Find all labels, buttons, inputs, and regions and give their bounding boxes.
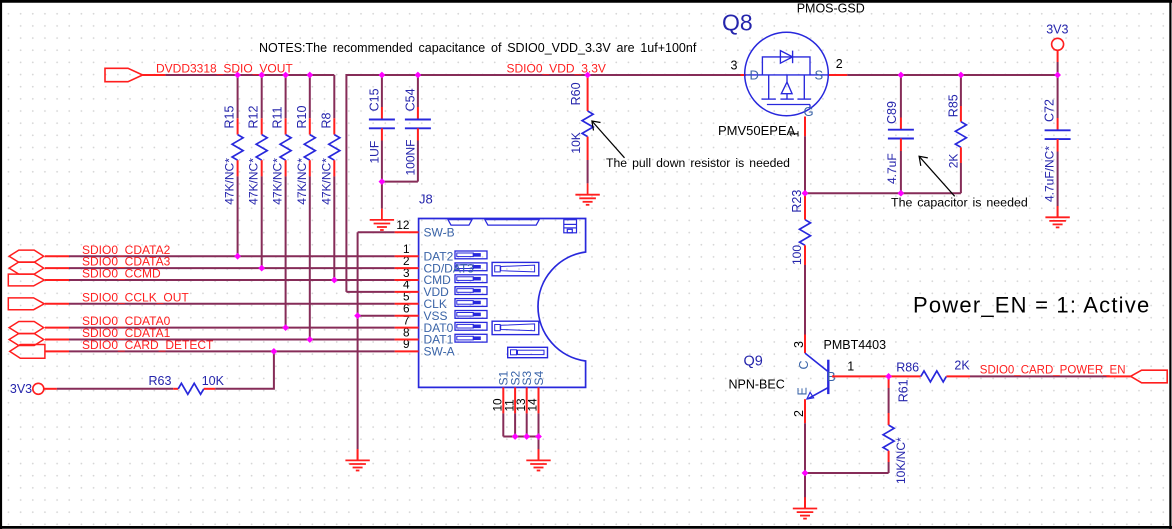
wire SDIO0_CDATA0	[69, 327, 395, 329]
wire S1 down	[502, 413, 504, 436]
wire Q9 collector pin	[804, 335, 806, 354]
junction at 309.8,75	[306, 72, 313, 79]
ground under S4	[526, 449, 550, 470]
connector slot bar 2	[485, 220, 539, 225]
wire S4 down	[538, 413, 540, 436]
power terminal 3V3 left	[33, 383, 57, 394]
resistor R63 10K	[57, 374, 225, 394]
svg-text:C: C	[797, 360, 811, 369]
junction at 1057.6,75	[1054, 72, 1061, 79]
svg-text:3V3: 3V3	[10, 382, 32, 396]
svg-text:The capacitor is needed: The capacitor is needed	[891, 195, 1028, 209]
port SDIO0_CARD_DETECT	[10, 345, 69, 359]
connector write-protect switch icon	[564, 220, 577, 233]
wire rail SDIO0_VDD_3.3V left part	[346, 75, 740, 292]
resistor R23 100	[790, 190, 811, 335]
connector slot bar 1	[448, 220, 472, 225]
resistor R10 47K/NC* pull-up	[295, 75, 316, 340]
wire rail SDIO0_VDD_3.3V right part	[847, 74, 1057, 76]
junction at 285.6,327.6	[282, 324, 289, 331]
junction at 900.9,75	[898, 72, 905, 79]
svg-text:1: 1	[847, 359, 854, 373]
svg-text:R61: R61	[897, 379, 911, 402]
junction at 261.7,75	[258, 72, 265, 79]
connector card switch 1	[492, 262, 539, 275]
svg-text:R86: R86	[896, 361, 919, 375]
svg-text:S: S	[815, 67, 824, 82]
resistor R85 2K	[946, 75, 966, 193]
pin stub 4	[395, 291, 419, 293]
junction at 237.6,256.2	[234, 253, 241, 260]
svg-text:NOTES:The recommended capacita: NOTES:The recommended capacitance of SDI…	[259, 41, 697, 55]
port SDIO0_CDATA1	[9, 333, 69, 345]
pin stub 3	[395, 279, 419, 281]
svg-text:R15: R15	[223, 106, 237, 129]
svg-text:SDIO0_VDD_3.3V: SDIO0_VDD_3.3V	[507, 61, 606, 75]
pin stub 7	[395, 327, 419, 329]
svg-text:4.7uF/NC*: 4.7uF/NC*	[1043, 146, 1057, 202]
svg-text:C72: C72	[1043, 99, 1057, 122]
wire SDIO0_CDATA1	[69, 339, 395, 341]
wire SW-B to ground column	[358, 231, 395, 233]
svg-text:47K/NC*: 47K/NC*	[223, 158, 237, 205]
svg-text:The pull down resistor is need: The pull down resistor is needed	[606, 156, 790, 170]
junction at 237.6,75	[234, 72, 241, 79]
svg-text:10K: 10K	[202, 374, 225, 388]
connector card switch 2	[492, 321, 539, 334]
junction at 261.7,268.1	[258, 265, 265, 272]
connector contact pad 3	[455, 275, 487, 283]
wire SDIO0_CCLK_OUT	[69, 303, 395, 305]
ground under C15	[370, 209, 394, 230]
port SDIO0_CDATA3	[9, 262, 69, 274]
svg-text:C89: C89	[885, 101, 899, 124]
resistor R12 47K/NC* pull-up	[247, 75, 268, 268]
svg-text:J8: J8	[419, 192, 433, 207]
capacitor C54 100NF	[403, 75, 431, 182]
svg-text:100: 100	[790, 245, 804, 265]
connector J8 body outline	[419, 219, 586, 388]
wire R63 to card detect	[215, 351, 274, 388]
pin stub 10	[502, 387, 504, 413]
svg-text:PMV50EPEA: PMV50EPEA	[718, 123, 796, 138]
junction at 381.9,75	[379, 72, 386, 79]
connector contact pad 2	[455, 263, 487, 271]
wire SDIO0_CCMD	[69, 279, 395, 281]
wire Q9 base	[832, 375, 889, 377]
resistor R86 2K	[889, 358, 971, 382]
svg-text:10K/NC*: 10K/NC*	[894, 437, 908, 484]
junction at 888.6,376.4	[885, 373, 892, 380]
resistor R61 10K/NC*	[883, 376, 910, 484]
junction at 538.5,436.5	[535, 433, 542, 440]
pin stub 13	[526, 387, 528, 413]
svg-text:DVDD3318_SDIO_VOUT: DVDD3318_SDIO_VOUT	[156, 61, 293, 75]
wire ground column vertical	[357, 232, 359, 460]
svg-text:R10: R10	[295, 106, 309, 129]
wire C15-C54 bottom rail	[382, 181, 418, 183]
svg-text:R12: R12	[247, 106, 261, 129]
svg-text:R63: R63	[149, 374, 172, 388]
wire C15 to ground	[381, 182, 383, 209]
wire VSS pin	[358, 315, 395, 317]
wire rail DVDD3318_SDIO_VOUT	[165, 74, 334, 76]
wire Q8 source red pin	[828, 74, 848, 76]
connector contact pad 6	[455, 311, 487, 319]
annotation arrow to R60	[592, 121, 625, 158]
svg-text:10K: 10K	[569, 132, 583, 153]
pin stub 11	[514, 387, 516, 413]
junction at 526.7,436.5	[523, 433, 530, 440]
annotation arrow to C89	[919, 156, 955, 196]
junction at 805,193.2	[802, 190, 809, 197]
wire SDIO0_CDATA2	[69, 255, 395, 257]
svg-text:S4: S4	[532, 370, 546, 385]
pin stub 12	[395, 231, 419, 233]
svg-text:1UF: 1UF	[367, 141, 381, 164]
resistor R60 10K pull-down	[569, 75, 593, 183]
junction at 900.9,193.2	[898, 190, 905, 197]
wire SDIO0_CDATA3	[69, 267, 395, 269]
port SDIO0_CCMD	[8, 274, 69, 286]
wire 3V3 to rail	[1057, 62, 1059, 75]
wire S2 down	[514, 413, 516, 436]
ground under C72	[1045, 206, 1069, 227]
svg-text:R8: R8	[319, 112, 333, 128]
port SDIO0_CCLK_OUT	[8, 298, 69, 310]
transistor Q9 symbol	[805, 353, 828, 399]
svg-text:PMOS-GSD: PMOS-GSD	[797, 2, 865, 16]
port SDIO0_CDATA2	[9, 250, 69, 262]
junction at 357.6,315.7	[354, 312, 361, 319]
pin stub 2	[395, 267, 419, 269]
svg-text:C54: C54	[403, 88, 417, 111]
svg-text:E: E	[796, 387, 810, 395]
pin stub 6	[395, 315, 419, 317]
svg-text:3: 3	[731, 59, 738, 73]
port SDIO0_CARD_POWER_EN	[1107, 370, 1168, 383]
svg-text:R11: R11	[271, 106, 285, 128]
svg-text:SDIO0_CCLK_OUT: SDIO0_CCLK_OUT	[82, 290, 189, 304]
connector bottom switch	[508, 347, 548, 357]
svg-text:R60: R60	[569, 82, 583, 105]
wire VDD pin from rail riser	[346, 291, 394, 293]
power terminal 3V3 right	[1052, 38, 1064, 62]
svg-text:100NF: 100NF	[403, 139, 417, 175]
wire to SDIO0_CARD_POWER_EN	[970, 375, 1107, 377]
junction at 417.9,75	[415, 72, 422, 79]
svg-text:SDIO0_CARD_POWER_EN: SDIO0_CARD_POWER_EN	[980, 365, 1126, 377]
junction at 381.9,181.6	[379, 178, 386, 185]
port SDIO0_CDATA0	[9, 322, 69, 334]
ground under SW-B/VSS column	[345, 449, 369, 470]
svg-text:3: 3	[792, 341, 806, 348]
svg-text:PMBT4403: PMBT4403	[824, 338, 887, 352]
junction at 515.1,436.5	[512, 433, 519, 440]
svg-text:2K: 2K	[946, 154, 960, 169]
resistor R11 47K/NC* pull-up	[271, 75, 292, 328]
svg-text:D: D	[750, 67, 759, 82]
wire Q9 emitter down	[804, 399, 806, 508]
ground under Q9	[793, 497, 817, 518]
svg-text:3V3: 3V3	[1046, 22, 1068, 36]
svg-text:47K/NC*: 47K/NC*	[295, 158, 309, 205]
svg-text:C15: C15	[367, 88, 381, 111]
svg-text:4.7uF: 4.7uF	[885, 153, 899, 184]
svg-text:12: 12	[396, 218, 409, 232]
svg-text:2K: 2K	[954, 358, 970, 372]
connector contact pad 8	[455, 334, 487, 342]
junction at 285.6,75	[282, 72, 289, 79]
svg-text:R85: R85	[946, 94, 960, 117]
connector contact pad 7	[455, 322, 487, 330]
svg-text:SDIO0_CARD_DETECT: SDIO0_CARD_DETECT	[82, 338, 214, 352]
capacitor C15 1UF	[367, 75, 395, 182]
pin stub 1	[395, 255, 419, 257]
transistor Q8 PMV50EPEA symbol	[745, 32, 829, 116]
wire Q8 drain red pin	[741, 74, 747, 76]
resistor R8 47K/NC* pull-up	[319, 75, 340, 280]
svg-text:Power_EN = 1: Active: Power_EN = 1: Active	[913, 293, 1150, 318]
svg-text:SDIO0_CCMD: SDIO0_CCMD	[82, 267, 161, 281]
connector contact pad 4	[455, 287, 487, 295]
junction at 960.9,75	[958, 72, 965, 79]
junction at 309.8,339.5	[306, 336, 313, 343]
svg-text:47K/NC*: 47K/NC*	[271, 158, 285, 205]
wire Q8 gate down	[804, 117, 806, 194]
port DVDD3318_SDIO_VOUT	[105, 68, 165, 81]
svg-text:Q9: Q9	[744, 354, 763, 370]
svg-text:NPN-BEC: NPN-BEC	[729, 378, 785, 392]
svg-text:SW-B: SW-B	[424, 225, 455, 239]
connector contact pad 1	[455, 251, 487, 259]
connector contact pad 5	[455, 299, 487, 307]
wire shield bus	[503, 436, 538, 438]
wire S4 to ground	[538, 437, 540, 461]
ground under R60	[575, 183, 599, 204]
pin stub 8	[395, 339, 419, 341]
capacitor C72 4.7uF/NC*	[1043, 75, 1071, 217]
svg-text:SW-A: SW-A	[424, 345, 455, 359]
junction at 334.3,280.0	[331, 277, 338, 284]
svg-text:Q8: Q8	[722, 10, 753, 36]
wire SDIO0_CARD_DETECT	[69, 350, 395, 352]
junction at 805,473	[802, 470, 809, 477]
wire gate/C89/R85 bottom rail	[805, 192, 961, 194]
capacitor C89 4.7uF	[885, 75, 914, 193]
svg-text:2: 2	[836, 57, 843, 71]
resistor R15 47K/NC* pull-up	[223, 75, 244, 256]
svg-text:47K/NC*: 47K/NC*	[319, 158, 333, 205]
pin stub 5	[395, 303, 419, 305]
svg-text:47K/NC*: 47K/NC*	[247, 158, 261, 205]
wire R61 bottom to emitter	[805, 472, 889, 474]
wire S3 down	[526, 413, 528, 436]
pin stub 14	[538, 387, 540, 413]
junction at 587.6,75	[584, 72, 591, 79]
pin stub 9	[395, 350, 419, 352]
junction at 273.9,351.4	[271, 348, 278, 355]
